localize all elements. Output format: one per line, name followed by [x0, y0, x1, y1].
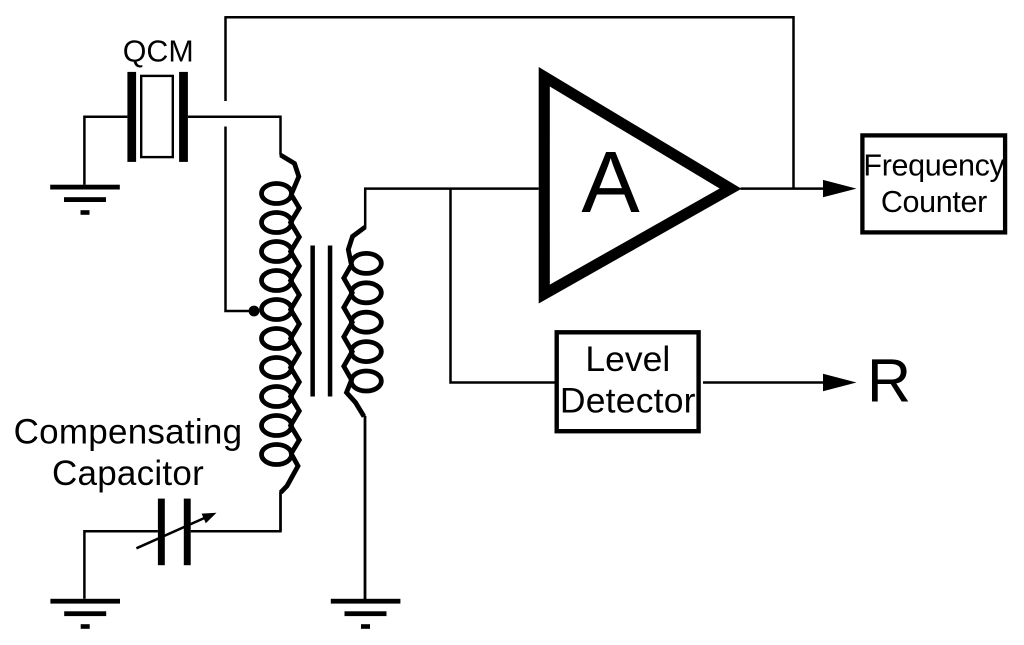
wire: tap down to level detector input — [451, 189, 557, 383]
compensating capacitor C (variable, two plates) — [158, 499, 191, 566]
transformer secondary winding (right coil, 5 loops) — [344, 227, 382, 417]
ground (below crystal) — [50, 185, 120, 215]
wire: level detector output — [703, 381, 824, 384]
junction dot on primary winding tap — [249, 306, 260, 317]
wire: amplifier output — [741, 187, 825, 190]
frequency counter box — [862, 135, 1005, 232]
wire: primary bottom lead down to capacitor wire — [279, 492, 282, 532]
svg-text:A: A — [581, 133, 640, 231]
transformer primary winding (left coil, 10 loops) — [262, 155, 300, 493]
svg-text:Frequency: Frequency — [863, 149, 1005, 183]
ground (below compensating capacitor) — [50, 599, 120, 629]
wire: secondary bottom lead down to ground — [364, 416, 367, 599]
wire: tap from top rail down to transformer primary (gap where it crosses crystal wire) — [224, 16, 227, 101]
transformer core (two bars) — [310, 246, 332, 397]
variable-capacitor arrow — [136, 513, 216, 549]
op-amp U1 (triangle) — [539, 67, 742, 304]
svg-text:QCM: QCM — [123, 34, 194, 68]
wire: crystal right lead over to transformer primary top — [188, 117, 281, 156]
ground (below transformer secondary) — [331, 599, 401, 629]
svg-text:Level: Level — [585, 339, 670, 379]
wire: secondary top lead to amplifier input — [364, 189, 539, 228]
crystal QCM (two plates + inner rectangle) — [127, 72, 188, 162]
svg-text:R: R — [867, 346, 911, 414]
svg-text:Counter: Counter — [881, 185, 987, 219]
svg-text:Capacitor: Capacitor — [52, 454, 204, 493]
svg-text:Compensating: Compensating — [14, 412, 243, 451]
arrowhead into frequency counter — [823, 180, 857, 197]
wire: crystal left lead to ground — [84, 117, 127, 185]
wire: capacitor right lead to transformer primary bottom — [191, 492, 282, 531]
arrowhead to R — [823, 374, 857, 391]
wire: top feedback rail and vertical drop to amplifier output — [226, 17, 794, 188]
svg-text:Detector: Detector — [560, 381, 696, 421]
wire: capacitor left lead to ground — [84, 531, 157, 599]
level detector box — [557, 332, 699, 431]
